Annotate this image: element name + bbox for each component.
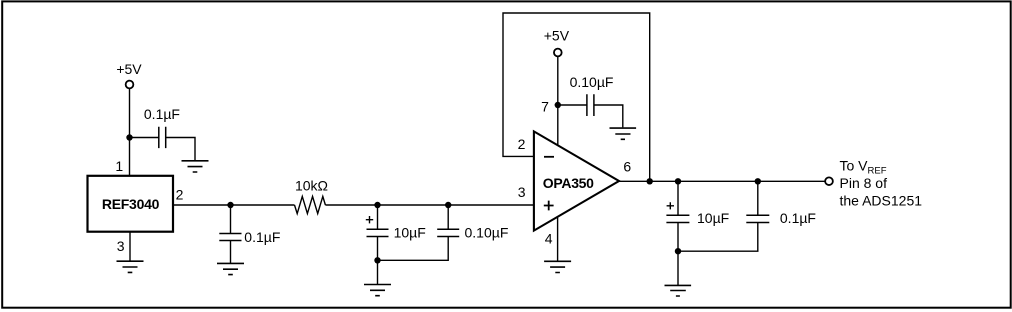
wire from +5V terminal to REF3040 pin 1 bbox=[129, 88, 131, 175]
capacitor C3 10uF (tantalum, polarized) bbox=[367, 229, 389, 236]
svg-text:0.10µF: 0.10µF bbox=[465, 225, 509, 241]
junction dot at pin 7 bypass node bbox=[555, 102, 561, 108]
svg-text:REF3040: REF3040 bbox=[102, 196, 160, 212]
resistor R1 10k bbox=[295, 196, 326, 213]
svg-text:2: 2 bbox=[176, 186, 184, 202]
junction dot at C7 node bbox=[755, 178, 761, 184]
wire down to capacitor C4 bbox=[447, 205, 449, 229]
svg-text:6: 6 bbox=[623, 159, 631, 175]
wire resistor to op-amp pin 3 bbox=[325, 204, 534, 206]
svg-text:Pin 8 of: Pin 8 of bbox=[840, 175, 888, 191]
voltage reference U1 REF3040 bbox=[88, 176, 174, 232]
svg-text:the ADS1251: the ADS1251 bbox=[840, 193, 923, 209]
wire down to capacitor C2 bbox=[230, 205, 232, 234]
ground (C1) bbox=[182, 161, 209, 172]
svg-text:0.1µF: 0.1µF bbox=[244, 229, 280, 245]
ground (REF3040 pin 3) bbox=[117, 261, 144, 272]
wire op-amp pin 4 to ground bbox=[557, 217, 559, 261]
plus sign (non-inverting input) bbox=[544, 201, 554, 211]
wire REF3040 output pin 2 to resistor R1 bbox=[173, 204, 295, 206]
ground (C5) bbox=[610, 128, 637, 139]
wire node to ground bbox=[677, 251, 679, 285]
svg-text:10µF: 10µF bbox=[697, 210, 729, 226]
minus sign (inverting input) bbox=[544, 156, 554, 158]
junction dot at C3 node bbox=[374, 202, 380, 208]
junction dot at C3/C4 ground node bbox=[374, 257, 380, 263]
junction dot at C6 node bbox=[675, 178, 681, 184]
svg-text:7: 7 bbox=[541, 98, 549, 114]
svg-text:10µF: 10µF bbox=[394, 225, 426, 241]
svg-text:1: 1 bbox=[115, 158, 123, 174]
junction dot at C6/C7 ground node bbox=[675, 248, 681, 254]
op-amp U2 OPA350 triangle bbox=[534, 131, 619, 230]
svg-text:2: 2 bbox=[518, 136, 526, 152]
wire node to ground bbox=[377, 260, 379, 284]
svg-text:0.1µF: 0.1µF bbox=[780, 210, 816, 226]
wire down to capacitor C6 bbox=[677, 181, 679, 215]
feedback loop wire from op-amp inverting input to output bbox=[503, 13, 650, 181]
capacitor C1 0.1uF (input bypass) bbox=[159, 127, 166, 148]
svg-text:+5V: +5V bbox=[116, 61, 142, 77]
wire from C2 to ground bbox=[230, 241, 232, 264]
capacitor C7 0.1uF (output) bbox=[746, 215, 769, 222]
wire to capacitor C1 bbox=[130, 137, 159, 139]
svg-text:OPA350: OPA350 bbox=[543, 175, 594, 191]
svg-text:3: 3 bbox=[518, 184, 526, 200]
junction dot at C2 node bbox=[227, 202, 233, 208]
capacitor C2 0.1uF (REF output bypass) bbox=[219, 234, 241, 241]
svg-text:4: 4 bbox=[545, 231, 553, 247]
wire REF3040 pin 3 to ground bbox=[129, 232, 131, 261]
svg-text:0.1µF: 0.1µF bbox=[144, 106, 180, 122]
terminal +5V (left supply) bbox=[126, 81, 134, 89]
capacitor C6 10uF (output, polarized) bbox=[666, 215, 689, 222]
ground (C6/C7) bbox=[665, 285, 692, 296]
plus polarity mark for C3 bbox=[366, 216, 373, 223]
svg-text:3: 3 bbox=[117, 238, 125, 254]
ground (op-amp pin 4) bbox=[544, 261, 571, 272]
junction dot at pin1/C1 node bbox=[126, 134, 132, 140]
junction dot at C4 node bbox=[445, 202, 451, 208]
capacitor C5 0.10uF (supply bypass) bbox=[587, 94, 594, 116]
terminal VREF output bbox=[825, 177, 833, 185]
wire from C1 to ground bbox=[166, 138, 195, 161]
wire to capacitor C5 bbox=[558, 104, 587, 106]
capacitor C4 0.10uF bbox=[437, 229, 459, 236]
svg-text:10kΩ: 10kΩ bbox=[295, 178, 328, 194]
wire C5 to ground bbox=[594, 105, 623, 127]
svg-text:0.10µF: 0.10µF bbox=[570, 74, 614, 90]
wire C3 bottom to node bbox=[377, 237, 379, 261]
wire C6 bottom to node bbox=[677, 223, 679, 252]
ground (C3/C4) bbox=[364, 285, 391, 296]
output wire from op-amp pin 6 to terminal bbox=[619, 180, 825, 182]
svg-text:+5V: +5V bbox=[544, 27, 570, 43]
plus polarity mark for C6 bbox=[667, 202, 674, 209]
wire down to capacitor C3 bbox=[377, 205, 379, 229]
ground (C2) bbox=[217, 263, 244, 274]
wire +5V to op-amp pin 7 bbox=[557, 56, 559, 146]
wire node to C4 bottom bbox=[378, 237, 449, 261]
wire down to capacitor C7 bbox=[757, 181, 759, 215]
terminal +5V (op-amp supply) bbox=[554, 49, 562, 57]
wire node to C7 bottom bbox=[678, 223, 758, 252]
junction dot feedback/output bbox=[647, 178, 653, 184]
